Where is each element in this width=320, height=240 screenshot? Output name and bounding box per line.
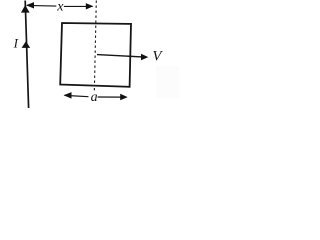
wire — [25, 1, 28, 109]
dimension x line right segment — [64, 5, 93, 7]
velocity arrow — [97, 55, 142, 57]
svg-text:a: a — [91, 90, 98, 105]
dimension x line left segment — [27, 4, 56, 7]
current arrowhead mid — [22, 41, 31, 48]
dimension a line right segment — [98, 96, 121, 98]
dashed line tail tick — [93, 88, 95, 90]
dimension a right arrowhead — [120, 94, 128, 101]
svg-text:I: I — [13, 36, 19, 51]
scan shadow — [156, 66, 179, 98]
square loop — [60, 23, 131, 87]
dashed center line — [94, 1, 96, 87]
dimension x left arrowhead — [26, 2, 34, 8]
dimension a left arrowhead — [64, 92, 72, 99]
svg-text:x: x — [56, 0, 64, 15]
dimension a line left segment — [65, 95, 89, 96]
dimension x right arrowhead — [86, 3, 94, 9]
current arrowhead top — [21, 5, 30, 13]
velocity arrowhead — [141, 54, 148, 61]
